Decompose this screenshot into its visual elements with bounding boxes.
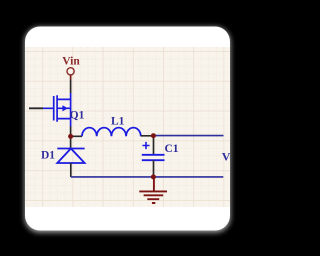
- svg-text:L1: L1: [111, 116, 125, 128]
- pin C1 top: [153, 136, 155, 155]
- inductor L1: [82, 128, 141, 137]
- junction node ground: [151, 174, 156, 179]
- pin Q1 source: [70, 119, 72, 127]
- white card: [25, 27, 230, 231]
- pin C1 bottom: [153, 160, 155, 177]
- svg-text:D1: D1: [41, 150, 55, 162]
- svg-text:Q1: Q1: [70, 110, 85, 122]
- wire Q1 source to node: [70, 127, 72, 137]
- wire ground rail: [71, 176, 224, 178]
- capacitor C1: [142, 155, 165, 160]
- transistor Q1: [43, 95, 71, 122]
- junction node output: [151, 133, 156, 138]
- pin from port Vin: [70, 75, 72, 80]
- wire gate Q1: [29, 107, 43, 109]
- plus sign C1: [142, 142, 149, 149]
- pin Q1 drain: [70, 93, 72, 100]
- pin L1 left: [71, 135, 82, 137]
- diode D1: [57, 149, 84, 164]
- ground: [139, 177, 167, 203]
- svg-text:C1: C1: [164, 143, 178, 155]
- card glow/shadow: [25, 27, 231, 233]
- wire output rail: [153, 135, 223, 137]
- port Vin: [67, 68, 74, 75]
- pin L1 right: [141, 135, 154, 137]
- wire port to Q1 drain: [70, 80, 72, 94]
- junction node switch: [68, 134, 73, 139]
- pin D1 top: [70, 136, 72, 148]
- schematic sheet: [25, 47, 230, 207]
- pin D1 bottom: [70, 163, 72, 177]
- svg-text:Vin: Vin: [62, 55, 80, 67]
